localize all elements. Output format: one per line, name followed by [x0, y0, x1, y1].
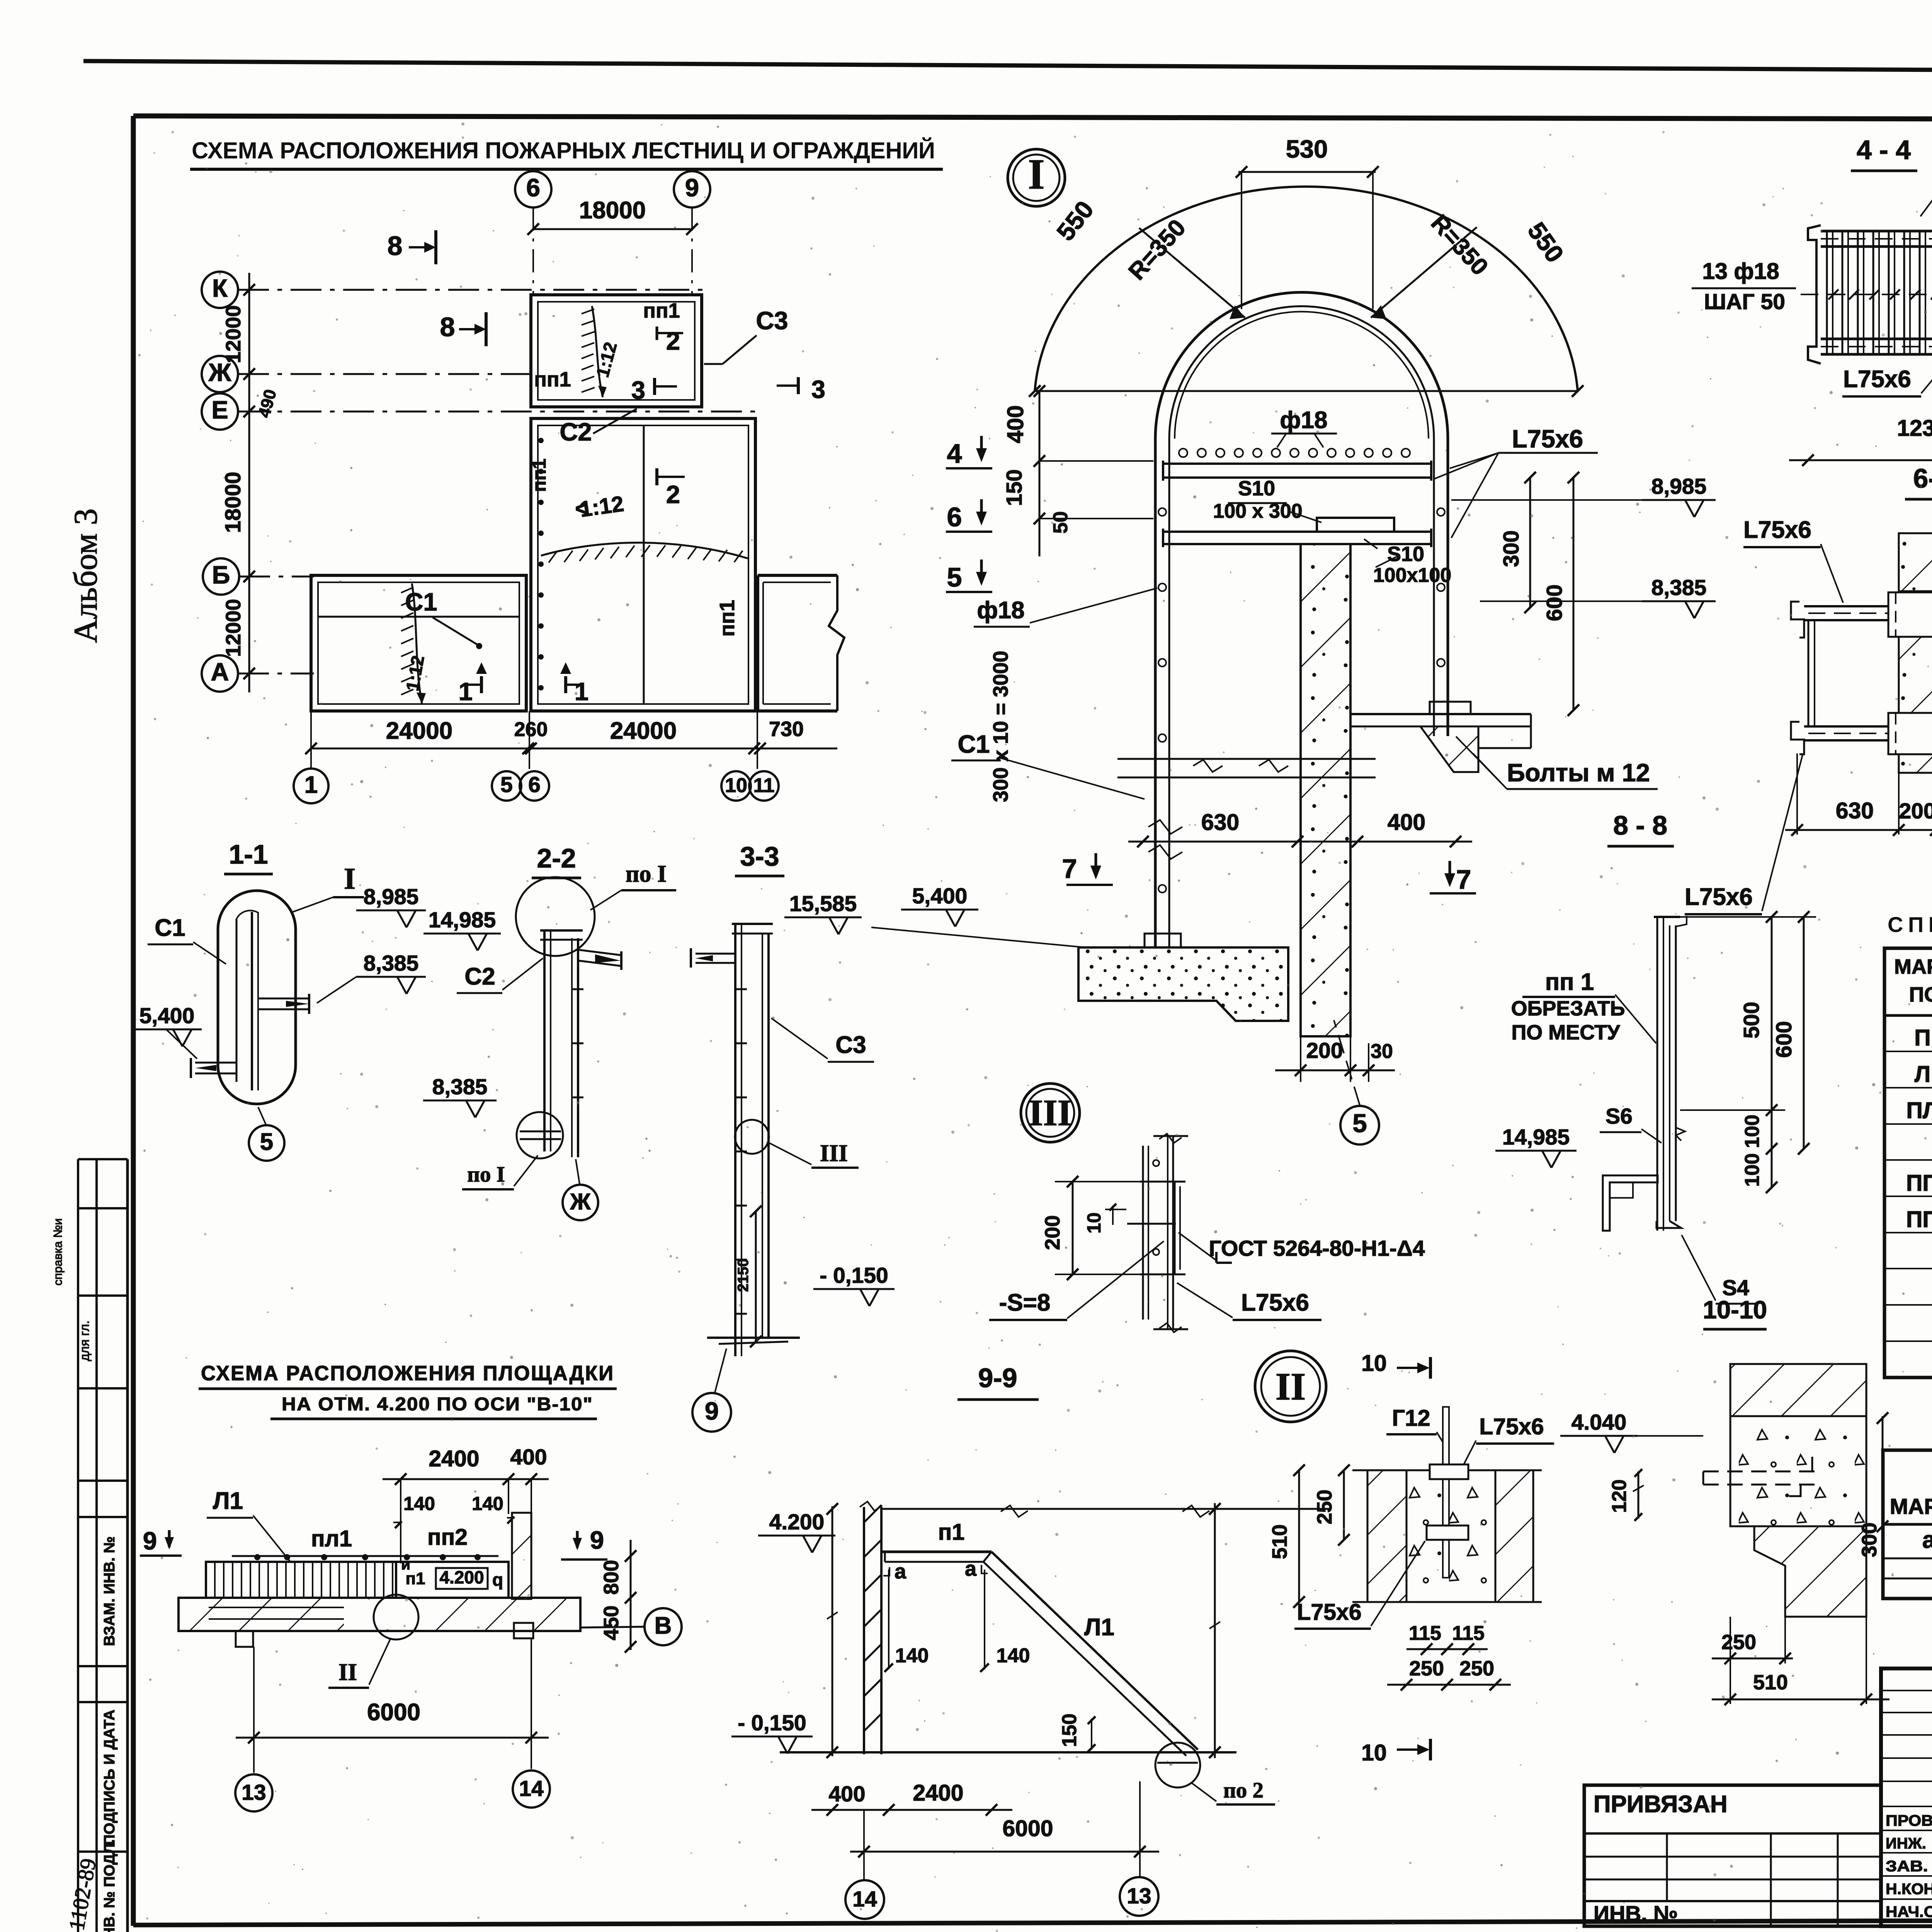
svg-text:ГОСТ 5264-80-Н1-Δ4: ГОСТ 5264-80-Н1-Δ4	[1209, 1236, 1425, 1261]
drawing frame	[133, 116, 1932, 120]
phi18 hole row	[1179, 449, 1187, 457]
svg-text:10: 10	[1361, 1350, 1387, 1376]
main title block frame	[1881, 1668, 1932, 1926]
top platform bar	[1163, 463, 1431, 465]
svg-text:200: 200	[1041, 1215, 1064, 1250]
svg-text:600: 600	[1542, 584, 1567, 621]
svg-text:-S=8: -S=8	[999, 1289, 1051, 1316]
footing slab	[1078, 947, 1288, 1021]
svg-text:В: В	[655, 1612, 672, 1639]
svg-text:10: 10	[1361, 1740, 1387, 1765]
grid circle 14 9-9	[845, 1880, 884, 1919]
svg-text:630: 630	[1836, 798, 1874, 823]
svg-text:2150: 2150	[735, 1259, 752, 1292]
svg-text:1230: 1230	[1897, 415, 1932, 441]
svg-text:250: 250	[1459, 1657, 1494, 1680]
svg-text:R=350: R=350	[1426, 210, 1493, 281]
svg-text:13: 13	[1127, 1884, 1151, 1908]
svg-text:q: q	[492, 1570, 503, 1590]
svg-text:15,585: 15,585	[789, 891, 857, 916]
bottom dimension chain plan	[311, 748, 837, 750]
svg-text:СПЕЦИФИКАЦИЯ К СХЕМЕ РАСПОЛ: СПЕЦИФИКАЦИЯ К СХЕМЕ РАСПОЛОЖЕНИЯ ПЛОЩАД…	[1888, 912, 1932, 937]
axis line K	[238, 289, 703, 291]
svg-text:ПРОВЕР.: ПРОВЕР.	[1886, 1812, 1932, 1829]
svg-text:500: 500	[1739, 1002, 1764, 1038]
grid circle 1	[294, 769, 328, 803]
pp1 support console	[1603, 1175, 1658, 1231]
svg-text:пл1: пл1	[311, 1526, 352, 1551]
svg-text:1: 1	[459, 677, 473, 706]
svg-text:L75x6: L75x6	[1479, 1414, 1544, 1439]
svg-text:2400: 2400	[913, 1780, 963, 1806]
svg-text:справка №и: справка №и	[51, 1218, 65, 1286]
svg-text:S10: S10	[1238, 477, 1275, 500]
left margin stamp strip	[77, 1159, 79, 1932]
svg-text:L75x6: L75x6	[1685, 884, 1753, 910]
svg-text:140: 140	[895, 1645, 929, 1667]
svg-text:100: 100	[1741, 1115, 1764, 1148]
svg-text:1: 1	[575, 677, 588, 706]
svg-text:490: 490	[255, 387, 280, 420]
svg-text:пп1: пп1	[534, 368, 571, 391]
grid circle 5 below column	[1340, 1106, 1379, 1145]
svg-text:7: 7	[1062, 854, 1077, 884]
lower bubble po I	[517, 1112, 563, 1158]
svg-text:С3: С3	[756, 306, 788, 335]
grid circle 6	[520, 771, 549, 801]
svg-text:по I: по I	[626, 861, 667, 887]
svg-text:14,985: 14,985	[429, 908, 496, 932]
axis circle V	[645, 1608, 682, 1645]
svg-text:260: 260	[514, 718, 548, 741]
svg-text:Н.КОНТР.: Н.КОНТР.	[1886, 1881, 1932, 1898]
10-10 bottom hatch band	[1754, 1526, 1866, 1617]
column base dims 200/30	[1300, 1036, 1301, 1082]
svg-text:5: 5	[500, 772, 513, 797]
svg-text:I: I	[1028, 151, 1044, 198]
svg-text:4: 4	[947, 439, 962, 469]
svg-text:1102-89: 1102-89	[64, 1857, 101, 1932]
dim 120	[1638, 1471, 1639, 1519]
svg-text:9: 9	[705, 1397, 719, 1425]
svg-text:10: 10	[725, 774, 747, 797]
svg-text:СХЕМА РАСПОЛОЖЕНИЯ ПОЖАРНЫХ ЛЕ: СХЕМА РАСПОЛОЖЕНИЯ ПОЖАРНЫХ ЛЕСТНИЦ И ОГ…	[192, 138, 937, 163]
svg-text:6: 6	[528, 772, 541, 797]
svg-text:8: 8	[388, 231, 403, 261]
svg-text:<: <	[575, 496, 588, 521]
3-3 base	[707, 1337, 800, 1339]
corbel bracket at column	[1350, 713, 1531, 715]
svg-text:9: 9	[143, 1527, 157, 1555]
svg-text:S10: S10	[1387, 543, 1424, 566]
detail bubble po I upper	[516, 877, 595, 956]
axis line Zh	[238, 373, 533, 375]
svg-text:II: II	[338, 1659, 357, 1685]
svg-text:Болты м 12: Болты м 12	[1507, 759, 1650, 787]
grid circle 11	[749, 771, 779, 801]
svg-text:8,985: 8,985	[364, 884, 419, 909]
svg-text:Е: Е	[211, 396, 228, 424]
detail marker III	[1021, 1083, 1080, 1142]
svg-text:8: 8	[440, 312, 455, 342]
dim 630/400 at footing level	[1128, 841, 1472, 843]
svg-text:L75x6: L75x6	[1241, 1289, 1309, 1316]
svg-text:300: 300	[1499, 530, 1524, 567]
detail bubble II on plan	[374, 1595, 418, 1639]
svg-text:150: 150	[1058, 1714, 1081, 1747]
dim 200 weld	[1072, 1182, 1074, 1274]
svg-text:по 2: по 2	[1223, 1778, 1264, 1803]
svg-text:140: 140	[472, 1493, 503, 1514]
svg-text:Г12: Г12	[1392, 1405, 1430, 1431]
svg-text:4.200: 4.200	[769, 1510, 825, 1534]
2-2 rail	[543, 930, 546, 1151]
svg-text:Л1: Л1	[213, 1488, 243, 1514]
svg-text:4.040: 4.040	[1571, 1410, 1627, 1435]
svg-text:3: 3	[631, 376, 645, 404]
svg-text:550: 550	[1522, 217, 1569, 268]
rail break marks	[1148, 820, 1182, 834]
mid block rung dots	[539, 439, 543, 442]
svg-text:30: 30	[1371, 1040, 1393, 1063]
platform arm lines at 8.385	[1117, 758, 1376, 760]
svg-text:13: 13	[241, 1780, 266, 1805]
svg-text:L75x6: L75x6	[1297, 1599, 1361, 1625]
grid circle 13 plan	[235, 1774, 272, 1811]
svg-text:II: II	[1276, 1365, 1306, 1408]
grid circle 9 under 3-3	[692, 1393, 731, 1432]
svg-text:С3: С3	[835, 1032, 866, 1058]
svg-text:пп1: пп1	[643, 299, 680, 322]
svg-text:для гл.: для гл.	[77, 1320, 92, 1361]
plan axis circle E	[202, 393, 238, 430]
svg-text:730: 730	[769, 718, 804, 741]
svg-text:пп1: пп1	[529, 459, 550, 492]
3-3 rail	[734, 924, 736, 1356]
svg-text:510: 510	[1753, 1671, 1788, 1694]
dim 2150	[755, 1211, 757, 1342]
rung bolts on rails	[1158, 508, 1166, 516]
svg-text:п1: п1	[405, 1569, 425, 1588]
svg-text:III: III	[1029, 1092, 1072, 1133]
right rail	[1447, 439, 1449, 736]
svg-text:Ж: Ж	[570, 1189, 591, 1214]
plan axis circle B	[203, 558, 239, 595]
svg-text:6-6: 6-6	[1913, 463, 1932, 493]
deck bolts	[255, 1555, 260, 1560]
anchor bolt	[1443, 1407, 1449, 1578]
svg-text:8,385: 8,385	[364, 951, 419, 976]
svg-text:150: 150	[1002, 469, 1027, 506]
2-2 top bracket arm	[578, 950, 621, 955]
svg-text:ф18: ф18	[1280, 407, 1327, 434]
2-2 rung marks	[572, 988, 583, 990]
svg-text:8,385: 8,385	[1651, 575, 1707, 600]
svg-text:9: 9	[590, 1526, 604, 1554]
svg-text:100x100: 100x100	[1373, 564, 1451, 587]
svg-text:пп2: пп2	[427, 1524, 468, 1550]
svg-text:14: 14	[519, 1776, 544, 1801]
svg-text:12000: 12000	[222, 599, 245, 657]
svg-text:24000: 24000	[610, 718, 677, 744]
svg-text:14,985: 14,985	[1502, 1125, 1570, 1150]
svg-text:510: 510	[1268, 1524, 1291, 1559]
left vertical dimension chain	[248, 273, 250, 692]
1-1 left arm	[195, 1062, 236, 1064]
svg-text:МАРКА: МАРКА	[1890, 1494, 1932, 1519]
svg-text:530: 530	[1286, 135, 1328, 163]
svg-text:L75x6: L75x6	[1743, 517, 1811, 543]
svg-text:- 0,150: - 0,150	[820, 1263, 888, 1288]
svg-text:III: III	[820, 1140, 848, 1167]
axis line A	[238, 673, 314, 675]
svg-text:300 x 10 = 3000: 300 x 10 = 3000	[989, 651, 1012, 802]
dim arc 550/530 over arch	[1035, 187, 1578, 391]
svg-text:а: а	[965, 1557, 977, 1580]
9-9 platform p1	[881, 1551, 992, 1553]
svg-text:а: а	[895, 1560, 906, 1583]
anchor bolts under slab	[236, 1631, 253, 1647]
upper block walls	[531, 295, 702, 407]
svg-text:ЗАВ. ГР.: ЗАВ. ГР.	[1886, 1858, 1932, 1875]
svg-text:400: 400	[1003, 405, 1028, 443]
3-3 left arm	[696, 953, 735, 955]
svg-text:1: 1	[304, 772, 318, 798]
6-6 top bracket row	[1804, 605, 1932, 607]
mid block walls	[531, 418, 755, 711]
9-9 stair slope L1	[992, 1552, 1198, 1750]
svg-text:П 1: П 1	[1914, 1025, 1932, 1051]
floor slab band	[179, 1598, 580, 1631]
grid circle Zh under 2-2	[563, 1185, 598, 1220]
svg-text:5: 5	[947, 562, 962, 592]
svg-text:9: 9	[685, 173, 699, 202]
dim 300	[1882, 1416, 1884, 1528]
grid circle 5	[492, 771, 521, 801]
svg-text:24000: 24000	[386, 718, 452, 744]
svg-text:12000: 12000	[222, 305, 245, 363]
grid circle 5 under 1-1	[249, 1125, 284, 1161]
4.200 inset label	[436, 1568, 488, 1589]
svg-text:115: 115	[1452, 1622, 1485, 1645]
column pier	[1301, 544, 1350, 1036]
svg-text:пп1: пп1	[716, 600, 739, 636]
svg-text:ШАГ 50: ШАГ 50	[1704, 289, 1785, 314]
svg-text:S6: S6	[1605, 1104, 1633, 1129]
svg-text:ОБРЕЗАТЬ: ОБРЕЗАТЬ	[1511, 997, 1625, 1020]
grid circle 6 top	[515, 171, 551, 207]
svg-text:2400: 2400	[429, 1446, 479, 1471]
platform deck corrugated	[206, 1562, 396, 1598]
svg-text:140: 140	[997, 1645, 1030, 1667]
bubble po 2	[1155, 1743, 1200, 1787]
svg-text:8,385: 8,385	[432, 1075, 488, 1099]
svg-text:1-1: 1-1	[229, 839, 268, 869]
4-4 rung ticks on centerline	[1801, 294, 1932, 295]
svg-text:3-3: 3-3	[740, 841, 779, 871]
svg-text:СХЕМА РАСПОЛОЖЕНИЯ ПЛОЩАДКИ: СХЕМА РАСПОЛОЖЕНИЯ ПЛОЩАДКИ	[201, 1362, 614, 1385]
svg-text:115: 115	[1409, 1622, 1441, 1645]
6-6 bottom bracket row	[1804, 725, 1932, 728]
ladder arch rails	[1155, 293, 1448, 439]
svg-text:1:12: 1:12	[402, 654, 428, 692]
left rows	[1881, 1690, 1932, 1691]
svg-text:3: 3	[811, 375, 825, 403]
S10 100x300 plate	[1317, 518, 1394, 532]
svg-text:R=350: R=350	[1123, 214, 1191, 285]
left rail	[1154, 439, 1157, 947]
second platform bar	[1163, 531, 1431, 533]
svg-text:4 - 4: 4 - 4	[1857, 135, 1911, 165]
svg-text:400: 400	[828, 1782, 865, 1806]
svg-text:4.200: 4.200	[439, 1567, 484, 1587]
svg-text:8 - 8: 8 - 8	[1613, 810, 1667, 840]
dim 18000 top	[533, 228, 692, 230]
svg-text:450: 450	[600, 1605, 623, 1640]
svg-text:5,400: 5,400	[139, 1003, 195, 1028]
svg-text:ПО МЕСТУ: ПО МЕСТУ	[1511, 1021, 1620, 1044]
svg-text:250: 250	[1313, 1490, 1336, 1524]
svg-text:НА ОТМ. 4.200 ПО ОСИ "В-10": НА ОТМ. 4.200 ПО ОСИ "В-10"	[282, 1394, 593, 1415]
svg-text:ПЛ 1: ПЛ 1	[1906, 1098, 1932, 1123]
svg-text:100: 100	[1741, 1153, 1764, 1187]
1-1 right arm	[258, 998, 309, 1000]
weld joint bars	[1142, 1146, 1144, 1320]
svg-text:ИНВ. №: ИНВ. №	[1594, 1901, 1678, 1926]
svg-text:ПП 2: ПП 2	[1906, 1207, 1932, 1232]
svg-text:6000: 6000	[1002, 1816, 1053, 1841]
detail marker I	[1008, 149, 1065, 206]
wall stub plan	[512, 1513, 531, 1599]
svg-text:9-9: 9-9	[978, 1363, 1017, 1393]
privyazan stamp box	[1584, 1785, 1881, 1926]
left dim chain 400/150/50	[1039, 391, 1041, 556]
svg-text:8,985: 8,985	[1651, 474, 1707, 499]
svg-text:Альбом 3: Альбом 3	[67, 509, 104, 643]
10-10 wall top hatch band	[1730, 1364, 1866, 1416]
svg-text:7: 7	[1456, 864, 1471, 895]
svg-text:I: I	[344, 862, 355, 895]
svg-text:А: А	[211, 658, 229, 686]
embedded angle 10-10	[1703, 1471, 1816, 1473]
svg-text:5: 5	[1352, 1109, 1367, 1138]
svg-text:С2: С2	[560, 418, 592, 446]
svg-text:250: 250	[1409, 1657, 1444, 1680]
4-4 rungs	[1826, 231, 1828, 354]
plan axis circle A	[202, 655, 238, 692]
svg-text:10: 10	[1084, 1213, 1105, 1234]
plan axis circle K	[202, 272, 238, 308]
6-6 column concrete	[1899, 533, 1932, 591]
upper block slope 1:12	[592, 306, 603, 397]
svg-text:ПП 1: ПП 1	[1906, 1170, 1932, 1196]
svg-text:200: 200	[1306, 1038, 1343, 1063]
detail marker II	[1255, 1351, 1326, 1422]
svg-text:800: 800	[600, 1560, 623, 1595]
svg-text:18000: 18000	[221, 472, 245, 533]
svg-text:2: 2	[666, 327, 680, 355]
svg-text:ф18: ф18	[977, 597, 1024, 624]
svg-text:а: а	[1922, 1527, 1932, 1553]
grid circle 13 9-9	[1120, 1877, 1158, 1916]
svg-text:С1: С1	[957, 730, 990, 758]
svg-text:ИНЖ.: ИНЖ.	[1886, 1835, 1926, 1852]
6-6 left connector	[1808, 620, 1810, 726]
svg-text:600: 600	[1772, 1021, 1796, 1058]
svg-text:550: 550	[1051, 196, 1099, 246]
svg-text:11: 11	[753, 774, 775, 797]
svg-text:14: 14	[852, 1887, 877, 1912]
svg-text:6: 6	[526, 173, 540, 202]
svg-text:НАЧ.ОТД: НАЧ.ОТД	[1886, 1903, 1932, 1920]
right small block	[758, 574, 837, 577]
svg-text:2-2: 2-2	[537, 843, 576, 873]
svg-text:ПОЗ: ПОЗ	[1909, 983, 1932, 1006]
svg-text:ВЗАМ. ИНВ. №: ВЗАМ. ИНВ. №	[101, 1536, 118, 1646]
svg-text:2: 2	[666, 480, 680, 509]
svg-text:Л1: Л1	[1084, 1614, 1114, 1641]
svg-text:ПОДПИСЬ И ДАТА: ПОДПИСЬ И ДАТА	[101, 1709, 118, 1845]
svg-text:400: 400	[1388, 810, 1425, 835]
140 verticals	[888, 1570, 889, 1669]
9-9 wall	[863, 1507, 865, 1754]
svg-text:250: 250	[1721, 1631, 1756, 1654]
svg-text:Б: Б	[212, 561, 230, 589]
svg-text:140: 140	[403, 1493, 435, 1514]
grid circle 9 top	[674, 171, 710, 207]
9-9 top slab line	[881, 1508, 1329, 1510]
vedomost grid	[1883, 1450, 1932, 1599]
svg-text:10-10: 10-10	[1703, 1296, 1767, 1324]
svg-text:630: 630	[1201, 810, 1239, 835]
grid circle 10	[721, 771, 751, 801]
svg-text:6000: 6000	[367, 1699, 420, 1726]
svg-text:пп 1: пп 1	[1545, 969, 1594, 995]
top rule	[83, 61, 1932, 73]
axis line E	[238, 411, 757, 413]
3-3 rung marks	[735, 988, 747, 990]
spec table grid	[1884, 948, 1932, 1378]
dim 300 vertical	[1529, 478, 1531, 607]
svg-text:ИНВ. № ПОДЛ.: ИНВ. № ПОДЛ.	[101, 1839, 118, 1932]
top reference line of arch	[1035, 390, 1578, 392]
dims 510/250 vertical	[1298, 1470, 1300, 1602]
svg-text:120: 120	[1608, 1480, 1631, 1513]
svg-text:L75x6: L75x6	[1843, 366, 1911, 393]
svg-text:100 x 300: 100 x 300	[1213, 500, 1302, 522]
svg-text:L75x6: L75x6	[1512, 425, 1583, 453]
anchor masonry block	[1367, 1470, 1406, 1602]
pp1 dims 500/600/100/100	[1771, 917, 1773, 1187]
svg-text:С2: С2	[464, 963, 495, 990]
svg-text:С1: С1	[155, 915, 185, 941]
svg-text:п1: п1	[938, 1519, 964, 1545]
4-4 ladder rails	[1821, 230, 1932, 233]
svg-text:по I: по I	[467, 1162, 505, 1187]
platform plan dim 2400/400	[383, 1478, 549, 1480]
svg-text:18000: 18000	[579, 197, 646, 224]
svg-text:К: К	[212, 274, 228, 302]
svg-text:МАРКА: МАРКА	[1894, 955, 1932, 978]
left dim line 9-9	[832, 1506, 833, 1756]
svg-text:300: 300	[1858, 1522, 1881, 1557]
svg-text:6: 6	[947, 502, 962, 532]
svg-text:ПРИВЯЗАН: ПРИВЯЗАН	[1594, 1791, 1728, 1818]
10-10 concrete body	[1730, 1416, 1866, 1526]
pp1 plate element	[1656, 917, 1658, 1231]
svg-text:5,400: 5,400	[912, 884, 968, 908]
svg-text:13 ф18: 13 ф18	[1702, 259, 1779, 284]
